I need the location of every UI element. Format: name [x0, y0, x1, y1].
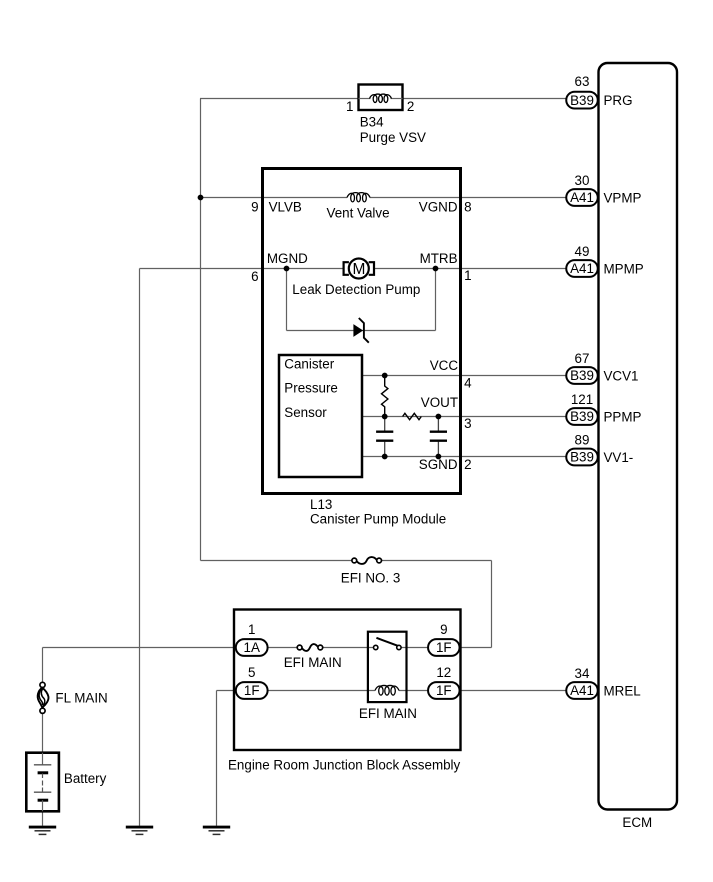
svg-text:MPMP: MPMP — [604, 261, 644, 276]
svg-text:1: 1 — [464, 268, 471, 283]
svg-text:MTRB: MTRB — [420, 251, 458, 266]
svg-text:Sensor: Sensor — [284, 405, 327, 420]
svg-text:8: 8 — [464, 199, 471, 214]
svg-text:5: 5 — [248, 665, 255, 680]
svg-text:EFI MAIN: EFI MAIN — [284, 655, 342, 670]
svg-text:SGND: SGND — [419, 457, 458, 472]
svg-text:Battery: Battery — [64, 771, 107, 786]
svg-text:1A: 1A — [244, 640, 260, 655]
svg-text:A41: A41 — [570, 261, 594, 276]
svg-text:Leak Detection Pump: Leak Detection Pump — [292, 282, 420, 297]
svg-text:VGND: VGND — [419, 199, 458, 214]
svg-text:2: 2 — [464, 457, 471, 472]
svg-text:B39: B39 — [570, 368, 594, 383]
svg-text:B39: B39 — [570, 409, 594, 424]
svg-text:Vent Valve: Vent Valve — [327, 205, 390, 220]
svg-text:L13: L13 — [310, 497, 332, 512]
svg-text:A41: A41 — [570, 190, 594, 205]
svg-text:6: 6 — [251, 269, 258, 284]
svg-text:A41: A41 — [570, 683, 594, 698]
svg-text:VLVB: VLVB — [269, 199, 302, 214]
svg-text:12: 12 — [436, 665, 451, 680]
svg-text:M: M — [352, 261, 365, 278]
svg-text:67: 67 — [575, 351, 590, 366]
svg-text:VOUT: VOUT — [421, 395, 458, 410]
svg-text:FL MAIN: FL MAIN — [55, 691, 107, 706]
svg-text:Canister: Canister — [284, 357, 334, 372]
svg-text:VCC: VCC — [430, 358, 459, 373]
svg-text:89: 89 — [575, 432, 590, 447]
svg-text:49: 49 — [575, 244, 590, 259]
svg-text:EFI MAIN: EFI MAIN — [359, 706, 417, 721]
svg-text:B39: B39 — [570, 450, 594, 465]
svg-text:Canister Pump Module: Canister Pump Module — [310, 511, 446, 526]
svg-text:63: 63 — [575, 74, 590, 89]
svg-text:Purge VSV: Purge VSV — [360, 130, 426, 145]
svg-text:ECM: ECM — [622, 815, 652, 830]
svg-text:MGND: MGND — [267, 251, 308, 266]
svg-text:PRG: PRG — [604, 93, 633, 108]
svg-text:121: 121 — [571, 392, 593, 407]
svg-text:B34: B34 — [360, 115, 384, 130]
svg-text:1: 1 — [346, 99, 353, 114]
svg-text:VPMP: VPMP — [604, 190, 642, 205]
svg-text:Pressure: Pressure — [284, 381, 338, 396]
svg-text:1F: 1F — [436, 640, 452, 655]
svg-text:1: 1 — [248, 622, 255, 637]
svg-text:PPMP: PPMP — [604, 409, 642, 424]
svg-text:34: 34 — [575, 666, 590, 681]
svg-text:1F: 1F — [436, 683, 452, 698]
svg-text:VV1-: VV1- — [604, 450, 634, 465]
svg-text:2: 2 — [407, 99, 414, 114]
svg-text:9: 9 — [251, 199, 258, 214]
svg-text:4: 4 — [464, 375, 472, 390]
svg-text:EFI NO. 3: EFI NO. 3 — [341, 571, 401, 586]
svg-text:30: 30 — [575, 173, 590, 188]
svg-text:1F: 1F — [244, 683, 260, 698]
svg-text:B39: B39 — [570, 93, 594, 108]
svg-text:9: 9 — [440, 622, 447, 637]
svg-text:VCV1: VCV1 — [604, 368, 639, 383]
svg-text:Engine Room Junction Block Ass: Engine Room Junction Block Assembly — [228, 758, 461, 773]
svg-text:3: 3 — [464, 416, 471, 431]
svg-text:MREL: MREL — [604, 683, 641, 698]
